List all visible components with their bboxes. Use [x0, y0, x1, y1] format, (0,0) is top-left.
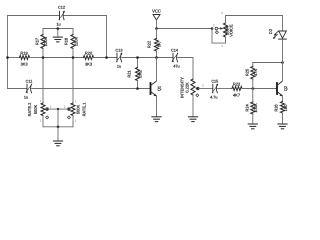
- svg-text:R26: R26: [274, 104, 279, 112]
- svg-text:1u: 1u: [117, 64, 121, 68]
- wire: RATE2 bottom stub: [42, 116, 44, 127]
- node: pot bottom rail ground junction: [57, 126, 60, 129]
- svg-text:C15: C15: [211, 80, 218, 84]
- wire: left feedback rail vertical: [7, 16, 9, 89]
- node: left rail R19 junction: [6, 56, 9, 59]
- svg-text:R17: R17: [35, 37, 40, 45]
- svg-text:500K: 500K: [33, 104, 38, 114]
- svg-text:R24: R24: [245, 104, 250, 112]
- svg-text:C12: C12: [58, 5, 65, 9]
- svg-text:220K: 220K: [73, 36, 78, 46]
- svg-text:R20: R20: [85, 50, 93, 55]
- svg-text:C14: C14: [171, 49, 178, 53]
- wire: wiper tie bar between RATE pots: [48, 108, 67, 110]
- node: VCC R22 junction: [155, 27, 158, 30]
- svg-text:C13: C13: [116, 49, 123, 53]
- wire: pot bottom rail: [43, 126, 73, 128]
- wire: Q1 emitter down to ground: [156, 96, 158, 116]
- resistor R25 47K vertical: [245, 63, 259, 89]
- svg-text:VOICE: VOICE: [229, 24, 234, 37]
- svg-text:4.7u: 4.7u: [210, 95, 217, 99]
- svg-text:RATE.2: RATE.2: [27, 102, 32, 116]
- wire: bus x42.5 to R20: [43, 57, 84, 59]
- svg-text:100K: 100K: [253, 103, 258, 113]
- svg-text:0.22K: 0.22K: [184, 82, 189, 93]
- wire: VOICE bottom loop back to rail: [212, 29, 226, 44]
- svg-text:R21: R21: [127, 70, 132, 78]
- svg-text:47u: 47u: [173, 64, 179, 68]
- transistor Q1: [151, 81, 162, 96]
- svg-text:R23: R23: [233, 82, 241, 87]
- svg-text:RATE.1: RATE.1: [81, 102, 86, 116]
- wire: wiper tie down to bottom rail: [57, 109, 59, 127]
- potentiometer VOICE 100K: [215, 23, 234, 37]
- power VCC: [152, 9, 161, 29]
- node: R18/RATE1 junction: [72, 56, 75, 59]
- LED D2: [268, 28, 286, 39]
- wire: bias rail ground stub: [57, 29, 59, 37]
- svg-text:R25: R25: [245, 68, 250, 76]
- node: R19/R17/RATE2 junction: [42, 56, 45, 59]
- wire: pot rail ground lead: [57, 127, 59, 141]
- resistor R26 180 vertical: [274, 102, 288, 124]
- node: R22/C14/Q1 collector junction: [155, 56, 158, 59]
- svg-text:5K: 5K: [156, 42, 161, 47]
- ground (Q1 emitter): [152, 117, 161, 122]
- wire: top rail left of C12: [8, 15, 60, 17]
- wire: Q2 collector up to LED node: [282, 63, 284, 82]
- svg-text:3K3: 3K3: [85, 61, 93, 66]
- potentiometer INTENSITY 22K: [180, 77, 199, 98]
- ground (bias network): [53, 37, 62, 42]
- potentiometer RATE.1 500K: [67, 102, 86, 119]
- svg-text:C11: C11: [26, 80, 33, 84]
- resistor R17 220K vertical: [35, 29, 48, 58]
- wire: RATE1 bottom stub: [72, 116, 74, 127]
- svg-text:R22: R22: [146, 40, 151, 48]
- node: R23/R25/R24/Q2 base junction: [252, 87, 255, 90]
- node: VCC rail pot return junction: [211, 27, 214, 30]
- wire: R19 to node x42.5: [30, 57, 44, 59]
- wire: VOICE top to top-right rail: [226, 16, 283, 24]
- capacitor C15 4.7u: [210, 80, 218, 100]
- capacitor C13 1u: [116, 49, 123, 69]
- node: LED cathode / R25 / Q2 collector junction: [281, 61, 284, 64]
- wire: INTENSITY wiper to C15: [199, 88, 213, 90]
- svg-text:500K: 500K: [75, 104, 80, 114]
- wire: R23 to Q2 base: [242, 88, 277, 90]
- wire: R20 to C13: [94, 57, 118, 59]
- svg-text:R19: R19: [20, 50, 28, 55]
- wire: INTENSITY bottom to ground: [192, 95, 194, 117]
- wire: lower bus y88 left rail to C11: [8, 88, 27, 90]
- resistor R22 5K vertical: [146, 29, 161, 58]
- capacitor C14 47u: [171, 49, 180, 69]
- capacitor C12 1u: [56, 5, 65, 26]
- svg-text:Q1: Q1: [156, 85, 161, 91]
- node: R21 bottom base bus junction: [136, 87, 139, 90]
- resistor R18 220K vertical: [63, 29, 78, 58]
- svg-text:1u: 1u: [56, 22, 60, 26]
- wire: node x72.5 down to RATE1: [72, 58, 74, 104]
- svg-text:180: 180: [283, 104, 288, 111]
- svg-text:R18: R18: [63, 37, 68, 45]
- wire: drop from top rail to signal bus: [106, 16, 108, 58]
- wire: C13 to R22 node: [122, 57, 173, 59]
- wire: C15 to R23: [218, 88, 233, 90]
- wire: Q2 emitter to R26: [282, 96, 284, 101]
- resistor R19 3K3: [20, 50, 30, 66]
- svg-text:VCC: VCC: [152, 9, 161, 14]
- wire: Q1 collector up to node: [156, 58, 158, 82]
- potentiometer RATE.2 500K: [27, 102, 49, 119]
- node: wiper tie junction: [57, 108, 59, 110]
- wire: VCC rail y28 to VOICE pot: [157, 28, 213, 30]
- node: top rail drop junction: [105, 56, 108, 59]
- ground (R24): [248, 124, 257, 129]
- wire: top rail right of C12: [64, 15, 107, 17]
- ground (R26): [278, 124, 287, 129]
- svg-text:3K3: 3K3: [20, 61, 28, 66]
- resistor R21 2M2 vertical: [127, 58, 143, 89]
- node: R21 top junction: [136, 56, 139, 59]
- wire: LED cathode down to node: [282, 39, 284, 62]
- wire: lower bus y88 C11 to Q1 base: [32, 88, 150, 90]
- svg-text:Q2: Q2: [283, 85, 288, 91]
- wire: R25 top rail to LED column: [253, 62, 283, 64]
- wire: C14 to INTENSITY corner: [178, 58, 193, 80]
- node: bias rail ground junction: [57, 27, 60, 30]
- svg-text:4K7: 4K7: [233, 92, 241, 97]
- resistor R24 100K vertical: [245, 89, 259, 124]
- resistor R20 3K3: [84, 50, 94, 66]
- resistor R23 4K7: [232, 82, 242, 98]
- ground (RATE pots): [53, 141, 62, 146]
- ground (INTENSITY pot): [188, 117, 197, 122]
- wire: rail down to LED anode: [282, 16, 284, 32]
- svg-text:220K: 220K: [43, 36, 48, 46]
- svg-text:D2: D2: [268, 28, 273, 34]
- svg-text:1u: 1u: [24, 95, 28, 99]
- svg-text:47K: 47K: [253, 69, 258, 76]
- transistor Q2: [277, 81, 288, 96]
- wire: node x42.5 down to RATE2: [42, 58, 44, 104]
- wire: bias top rail y28: [43, 28, 73, 30]
- wire: signal bus y57 left rail to R19: [8, 57, 20, 59]
- capacitor C11 1u: [24, 80, 32, 100]
- svg-text:2M2: 2M2: [137, 69, 142, 78]
